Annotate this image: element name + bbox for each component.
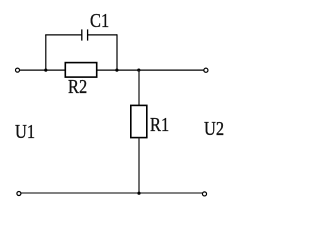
wire: C1 branch left vertical — [45, 35, 47, 70]
wire: C1 branch top-left horizontal — [45, 34, 81, 36]
terminal: bottom-left port — [17, 192, 21, 196]
resistor R2 body — [65, 63, 96, 78]
resistor R1 body — [131, 105, 147, 137]
label C1 — [90, 11, 109, 31]
label R2 — [68, 77, 87, 97]
node: junction at R1 top branch — [137, 69, 140, 72]
wire: C1 branch right vertical — [116, 34, 118, 70]
terminal: top-right output port — [204, 68, 208, 72]
node: junction left of R2 (C1 branch split) — [44, 69, 47, 72]
wire: R1 branch lower vertical — [138, 138, 140, 194]
capacitor C1 right plate — [87, 29, 89, 40]
label U1 — [15, 122, 35, 142]
wire: bottom rail — [21, 192, 202, 194]
terminal: bottom-right port — [202, 192, 206, 196]
capacitor C1 left plate — [81, 29, 83, 40]
wire: C1 branch top-right horizontal — [88, 34, 117, 36]
wire: top rail left segment — [20, 69, 66, 71]
wire: top rail right segment — [97, 69, 204, 71]
node: junction right of R2 (C1 branch rejoin) — [115, 69, 118, 72]
wire: R1 branch upper vertical — [138, 70, 140, 105]
label U2 — [204, 119, 224, 139]
label R1 — [150, 115, 169, 135]
terminal: top-left input port — [16, 68, 20, 72]
node: junction at bottom rail — [137, 192, 140, 195]
